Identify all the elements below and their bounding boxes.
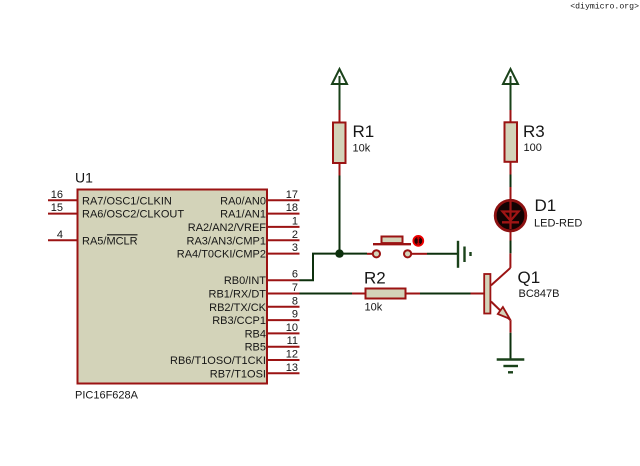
power symbol VCC above R1 (332, 69, 347, 110)
svg-text:<diymicro.org>: <diymicro.org> (570, 2, 639, 12)
wire R2 to Q1 base (420, 293, 471, 295)
svg-text:100: 100 (524, 142, 542, 154)
U1 pin 1 RA2/AN2/VREF (188, 215, 300, 234)
svg-text:LED-RED: LED-RED (534, 218, 582, 230)
R3 top pin (red) (510, 110, 512, 122)
svg-text:RA7/OSC1/CLKIN: RA7/OSC1/CLKIN (82, 195, 172, 207)
R2 left pin (red) (352, 293, 365, 295)
U1 pin 7 RB1/RX/DT (209, 282, 300, 301)
svg-text:U1: U1 (75, 170, 93, 186)
U1 pin 10 RB4 (245, 322, 300, 341)
D1 top pin (red) (510, 187, 512, 199)
svg-text:11: 11 (287, 335, 298, 347)
svg-text:PIC16F628A: PIC16F628A (75, 390, 139, 402)
svg-text:10: 10 (286, 322, 298, 334)
wire Q1 collector to D1 (green segment) (510, 241, 512, 254)
svg-text:18: 18 (286, 202, 298, 214)
junction node A (335, 249, 343, 257)
svg-text:RA6/OSC2/CLKOUT: RA6/OSC2/CLKOUT (82, 209, 184, 221)
U1 pin 9 RB3/CCP1 (212, 309, 299, 328)
svg-text:12: 12 (286, 349, 298, 361)
svg-text:6: 6 (292, 269, 298, 281)
svg-text:7: 7 (292, 282, 298, 294)
wire button to ground (427, 253, 457, 255)
svg-text:10k: 10k (365, 302, 383, 314)
svg-text:D1: D1 (535, 196, 557, 215)
U1 pin 2 RA3/AN3/CMP1 (187, 229, 300, 248)
wire VCC to R1 (pin, red) (339, 110, 341, 123)
svg-text:BC847B: BC847B (519, 288, 560, 300)
svg-text:RA4/T0CKI/CMP2: RA4/T0CKI/CMP2 (177, 249, 266, 261)
svg-text:R3: R3 (523, 122, 545, 141)
chip U1 body (78, 190, 268, 384)
svg-text:RA2/AN2/VREF: RA2/AN2/VREF (188, 222, 267, 234)
svg-text:RA0/AN0: RA0/AN0 (220, 195, 266, 207)
svg-text:3: 3 (292, 242, 298, 254)
resistor R2 (366, 289, 406, 299)
D1 bottom pin (red) (510, 232, 512, 241)
svg-text:RA3/AN3/CMP1: RA3/AN3/CMP1 (187, 235, 266, 247)
svg-text:17: 17 (286, 189, 298, 201)
wire R3 to VCC (510, 76, 512, 110)
U1 pin 18 RA1/AN1 (220, 202, 299, 221)
svg-text:2: 2 (292, 229, 298, 241)
svg-text:13: 13 (286, 362, 298, 374)
U1 pin 12 RB6/T1OSO/T1CKI (170, 349, 299, 368)
svg-text:RB2/TX/CK: RB2/TX/CK (209, 302, 267, 314)
U1 pin 15 RA6/OSC2/CLKOUT (48, 202, 184, 221)
resistor R1 (333, 123, 346, 164)
svg-text:10k: 10k (353, 143, 371, 155)
svg-text:1: 1 (292, 215, 298, 227)
svg-text:RB7/T1OSI: RB7/T1OSI (210, 368, 266, 380)
U1 pin 3 RA4/T0CKI/CMP2 (177, 242, 300, 261)
svg-text:15: 15 (51, 202, 63, 214)
transistor Q1 (NPN) (471, 253, 511, 332)
svg-text:RB0/INT: RB0/INT (224, 275, 266, 287)
R2 right pin (red) (406, 293, 420, 295)
ground (right of button, rotated) (458, 241, 471, 268)
svg-text:Q1: Q1 (518, 268, 541, 287)
wire R1 to node A (339, 176, 341, 254)
svg-text:RB4: RB4 (245, 328, 266, 340)
LED D1 (495, 200, 526, 231)
svg-text:16: 16 (51, 189, 63, 201)
svg-text:RB1/RX/DT: RB1/RX/DT (209, 289, 267, 301)
svg-text:9: 9 (292, 309, 298, 321)
svg-text:RB3/CCP1: RB3/CCP1 (212, 315, 266, 327)
R3 bottom pin (red) (510, 162, 512, 175)
svg-text:4: 4 (57, 229, 63, 241)
ground (below Q1) (497, 360, 525, 373)
svg-text:R2: R2 (364, 269, 386, 288)
U1 pin 11 RB5 (245, 335, 300, 354)
wire node A to button (340, 253, 368, 255)
wire Q1 emitter to ground (510, 333, 512, 359)
power symbol VCC above R3 (503, 69, 518, 84)
wire RB1 to R2 (300, 293, 353, 295)
svg-text:RB6/T1OSO/T1CKI: RB6/T1OSO/T1CKI (170, 355, 266, 367)
wire R1 bottom pin (red) (339, 163, 341, 176)
wire D1 to R3 (510, 175, 512, 188)
U1 pin 16 RA7/OSC1/CLKIN (48, 189, 172, 208)
U1 pin 17 RA0/AN0 (220, 189, 299, 208)
push button SW1 (367, 237, 427, 258)
wire RB0 to node A (300, 254, 340, 281)
svg-text:8: 8 (292, 295, 298, 307)
button interactive indicator (red) (413, 236, 423, 246)
U1 pin 4 RA5/MCLR (active-low overline) (48, 229, 138, 248)
U1 pin 6 RB0/INT (224, 269, 300, 288)
svg-text:RB5: RB5 (245, 342, 266, 354)
svg-text:RA1/AN1: RA1/AN1 (220, 209, 266, 221)
U1 pin 8 RB2/TX/CK (209, 295, 299, 314)
U1 pin 13 RB7/T1OSI (210, 362, 300, 381)
svg-text:RA5/MCLR: RA5/MCLR (82, 235, 138, 247)
svg-text:R1: R1 (353, 122, 375, 141)
resistor R3 (505, 122, 518, 162)
